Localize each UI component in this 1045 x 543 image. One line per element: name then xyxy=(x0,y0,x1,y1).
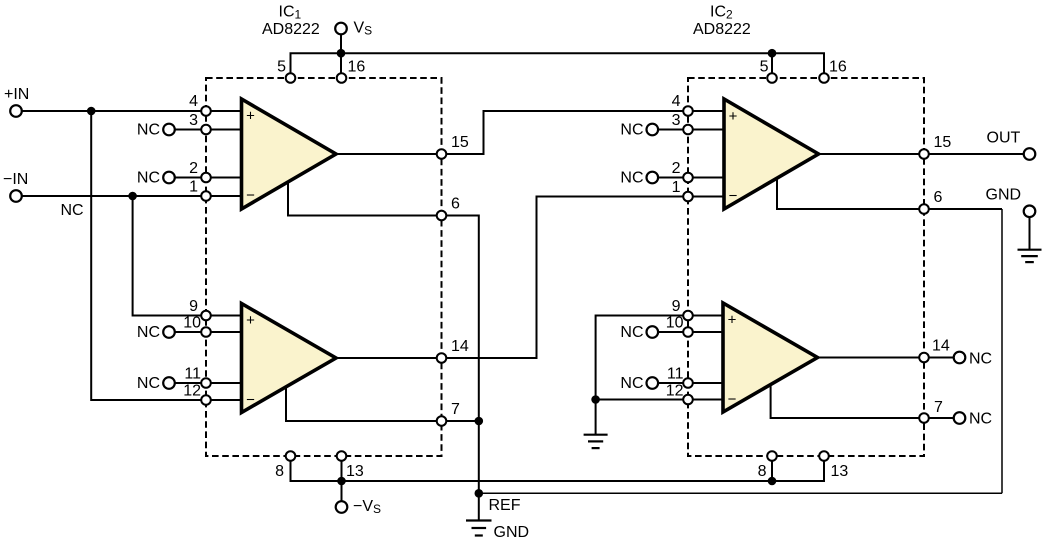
IC1 left pin numbers xyxy=(183,93,201,400)
op-amp input polarity marks xyxy=(246,108,738,409)
node: -IN junction xyxy=(128,192,137,201)
wire: +IN to IC1 pin 4 xyxy=(16,110,242,112)
svg-text:REF: REF xyxy=(489,497,521,514)
svg-text:NC: NC xyxy=(137,324,160,341)
svg-text:−IN: −IN xyxy=(3,171,28,188)
op-amp IC1 amp A xyxy=(242,99,337,209)
svg-text:11: 11 xyxy=(184,366,201,383)
svg-text:12: 12 xyxy=(666,383,684,400)
svg-text:9: 9 xyxy=(189,298,198,315)
terminal OUT xyxy=(1024,148,1036,160)
op-amp IC1 amp B xyxy=(242,304,337,413)
ground symbol at right GND terminal xyxy=(1018,250,1042,262)
wire: -VS rail IC1 pin 8 to IC2 pin 13 xyxy=(291,456,825,481)
svg-text:3: 3 xyxy=(189,112,198,129)
svg-text:−: − xyxy=(728,391,737,408)
node: -VS junction at IC2 xyxy=(768,477,777,486)
node: -VS junction at IC1 xyxy=(337,477,346,486)
wire: NC stub IC1 pin 3 xyxy=(169,129,242,131)
svg-text:OUT: OUT xyxy=(987,130,1021,147)
svg-text:9: 9 xyxy=(672,298,681,315)
svg-text:−VS: −VS xyxy=(353,498,381,516)
svg-text:7: 7 xyxy=(934,399,943,416)
svg-text:−: − xyxy=(729,188,738,205)
wire: VS rail drop to IC2 pin 5 xyxy=(771,53,773,78)
wire: -IN to IC1 pin 1 xyxy=(16,195,242,197)
svg-text:8: 8 xyxy=(758,463,767,480)
svg-text:+: + xyxy=(728,312,737,329)
wire: IC1 amp B output pin 14 to IC2 pin 1 xyxy=(336,197,724,359)
terminal +IN xyxy=(10,105,22,117)
svg-text:2: 2 xyxy=(189,160,198,177)
svg-text:VS: VS xyxy=(354,20,373,38)
svg-text:NC: NC xyxy=(137,170,160,187)
IC1 top/bottom pin numbers xyxy=(275,59,365,481)
wire: -VS rail to -VS terminal xyxy=(341,481,343,507)
terminal GND xyxy=(1024,206,1036,218)
node: VS junction at IC1 xyxy=(337,49,346,58)
terminal -VS xyxy=(336,501,348,513)
wire: IC2 amp B output pin 14 to NC xyxy=(818,357,960,359)
svg-text:NC: NC xyxy=(620,375,643,392)
node: VS junction at IC2 xyxy=(768,49,777,58)
wire: IC1 amp A output pin 15 to IC2 pin 4 xyxy=(336,111,724,154)
NC circles IC1 xyxy=(163,124,175,389)
svg-text:6: 6 xyxy=(934,189,943,206)
wire: IC2 amp B feedback through pin 7 to NC xyxy=(771,381,960,418)
svg-text:7: 7 xyxy=(451,401,460,418)
wire: NC stub IC2 pin 11 xyxy=(652,382,724,384)
svg-text:AD8222: AD8222 xyxy=(262,21,320,38)
wire: +IN branch down to IC1 pin 12 xyxy=(91,111,241,400)
svg-text:12: 12 xyxy=(183,383,201,400)
svg-text:NC: NC xyxy=(137,375,160,392)
svg-text:+: + xyxy=(246,108,255,125)
IC2 package outline (dashed) xyxy=(688,78,924,456)
wire: IC1 amp A feedback through pin 6 down to REF node xyxy=(288,178,479,493)
svg-text:10: 10 xyxy=(666,315,684,332)
svg-text:10: 10 xyxy=(183,315,201,332)
svg-text:1: 1 xyxy=(189,179,198,196)
IC1 package outline (dashed) xyxy=(206,78,442,456)
svg-text:+IN: +IN xyxy=(4,86,29,103)
svg-text:11: 11 xyxy=(667,366,684,383)
IC1 pin circles xyxy=(201,73,446,461)
svg-text:2: 2 xyxy=(672,160,681,177)
svg-text:NC: NC xyxy=(620,170,643,187)
svg-text:8: 8 xyxy=(275,463,284,480)
wire: NC stub IC1 pin 2 xyxy=(169,177,242,179)
IC2 left pin numbers xyxy=(666,93,684,400)
wire: IC1 pin 13 drop xyxy=(341,456,343,481)
wire: REF line xyxy=(479,492,1002,494)
svg-text:5: 5 xyxy=(760,59,769,76)
svg-text:NC: NC xyxy=(620,324,643,341)
wire: GND return down right side xyxy=(1001,209,1003,493)
node: pin 7 / REF drop junction xyxy=(475,417,484,426)
svg-text:IC1: IC1 xyxy=(279,4,302,22)
svg-text:13: 13 xyxy=(831,463,849,480)
wire: NC stub IC2 pin 2 xyxy=(652,177,724,179)
node: REF junction xyxy=(475,489,484,498)
wire: IC2 pin 8 drop xyxy=(771,456,773,481)
svg-text:−: − xyxy=(246,392,255,409)
NC labels IC2 xyxy=(620,122,643,393)
wire: IC1 amp B feedback through pin 7 xyxy=(286,385,479,422)
svg-text:NC: NC xyxy=(61,202,84,219)
svg-text:NC: NC xyxy=(620,122,643,139)
wire: NC stub IC2 pin 3 xyxy=(652,129,724,131)
IC2 top/bottom pin numbers xyxy=(758,59,849,481)
ground symbol at IC2 input net xyxy=(584,435,608,448)
NC labels IC1 xyxy=(137,122,160,393)
svg-text:+: + xyxy=(729,108,738,125)
svg-text:14: 14 xyxy=(932,338,950,355)
svg-text:3: 3 xyxy=(672,112,681,129)
svg-text:16: 16 xyxy=(829,59,847,76)
wire: NC stub IC2 pin 10 xyxy=(652,331,724,333)
wire: VS rail IC1 pin 5 to IC2 pin 16 xyxy=(291,53,825,78)
wire: NC stub IC1 pin 11 xyxy=(169,382,242,384)
svg-text:NC: NC xyxy=(137,122,160,139)
terminal -IN xyxy=(10,190,22,202)
svg-text:−: − xyxy=(246,187,255,204)
svg-text:+: + xyxy=(246,312,255,329)
node: IC2 pin 12 junction xyxy=(591,395,600,404)
wire: IC2 pin 9 to grounded pin 12 net xyxy=(596,316,724,400)
svg-text:6: 6 xyxy=(451,196,460,213)
svg-text:14: 14 xyxy=(451,338,469,355)
svg-text:4: 4 xyxy=(672,93,681,110)
svg-text:15: 15 xyxy=(934,134,952,151)
svg-text:1: 1 xyxy=(672,179,681,196)
wire: VS terminal down to IC1 pin 16 xyxy=(340,34,342,78)
op-amp IC2 amp B xyxy=(723,303,818,412)
wire: -IN branch down to IC1 pin 9 xyxy=(133,196,242,316)
IC2 right pin numbers xyxy=(932,134,951,416)
NC circles IC2 xyxy=(647,124,966,424)
terminal VS xyxy=(335,23,347,35)
svg-text:5: 5 xyxy=(277,59,286,76)
svg-text:15: 15 xyxy=(451,134,469,151)
wire: IC2 amp A output pin 15 to OUT xyxy=(819,153,1030,155)
NC labels right xyxy=(969,351,992,428)
op-amp IC2 amp A xyxy=(724,99,819,209)
svg-text:GND: GND xyxy=(494,524,530,541)
wire: right GND terminal stem xyxy=(1029,217,1031,250)
wire: bottom GND stem xyxy=(478,493,480,520)
IC1 right pin numbers xyxy=(451,134,469,418)
svg-text:NC: NC xyxy=(969,351,992,368)
wire: IC2 pin 9 net ground stem xyxy=(595,400,597,435)
svg-text:IC2: IC2 xyxy=(710,4,733,22)
wire: IC2 amp A feedback through pin 6 xyxy=(777,175,1002,209)
wire: NC stub IC1 pin 10 xyxy=(169,331,242,333)
svg-text:AD8222: AD8222 xyxy=(693,21,751,38)
svg-text:GND: GND xyxy=(986,187,1022,204)
svg-text:4: 4 xyxy=(189,93,198,110)
svg-text:13: 13 xyxy=(346,463,364,480)
node: +IN junction xyxy=(87,107,96,116)
svg-text:NC: NC xyxy=(969,411,992,428)
svg-text:16: 16 xyxy=(348,59,366,76)
ground symbol at REF node xyxy=(466,521,492,536)
IC2 pin circles xyxy=(683,73,929,461)
